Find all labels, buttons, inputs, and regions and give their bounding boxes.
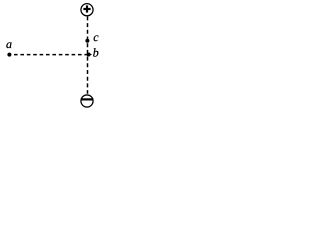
minus sign inside negative charge xyxy=(81,98,93,100)
svg-text:c: c xyxy=(93,30,99,44)
wire: vertical dashed line from + charge to - charge xyxy=(87,16,89,93)
node a (dot) xyxy=(7,53,11,57)
negative charge circle (bottom) xyxy=(81,95,93,107)
positive charge circle (top) xyxy=(81,4,93,16)
node b (dot with arrowhead) xyxy=(87,53,93,57)
svg-text:b: b xyxy=(93,46,99,60)
svg-text:a: a xyxy=(6,37,12,51)
plus sign inside positive charge xyxy=(83,5,90,12)
wire: horizontal dashed line from a to b xyxy=(14,54,88,56)
node c (dot) xyxy=(85,39,89,43)
